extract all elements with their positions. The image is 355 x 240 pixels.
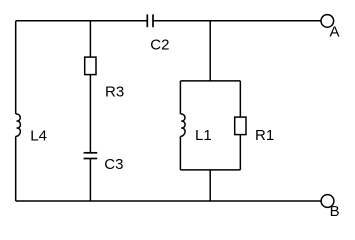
wire loop right lower [239, 135, 241, 170]
capacitor C3 [84, 153, 98, 159]
wire loop right upper [239, 81, 241, 117]
svg-text:R3: R3 [105, 83, 124, 100]
svg-text:R1: R1 [255, 127, 274, 144]
wire left lower (L4 down to bottom-left corner) [15, 136, 17, 201]
svg-text:A: A [330, 24, 340, 41]
wire middle feed top (top wire down to parallel loop) [209, 21, 211, 81]
wire C3 to bottom wire [89, 159, 91, 202]
wire loop top [180, 80, 240, 82]
inductor L1 [180, 114, 185, 137]
wire top-left (corner to C2 left plate) [16, 20, 148, 22]
svg-text:L4: L4 [30, 127, 47, 144]
resistor R3 [85, 57, 96, 75]
terminal A [321, 15, 334, 28]
terminal B [321, 195, 334, 208]
resistor R1 [235, 117, 246, 135]
wire loop left lower [179, 136, 181, 170]
inductor L4 [16, 114, 21, 137]
svg-text:C2: C2 [150, 36, 169, 53]
svg-text:B: B [330, 203, 340, 220]
wire R3 branch top (top wire down to R3) [89, 21, 91, 57]
wire top-right (C2 right plate to terminal A) [153, 20, 321, 22]
svg-text:C3: C3 [104, 156, 123, 173]
wire loop left upper [179, 81, 181, 114]
capacitor C2 [147, 14, 153, 27]
wire bottom (bottom-left corner to terminal B) [16, 200, 321, 202]
svg-text:L1: L1 [195, 127, 212, 144]
wire R3 to C3 [89, 75, 91, 153]
wire middle feed bottom (loop to bottom wire) [209, 170, 211, 201]
wire loop bottom [180, 169, 240, 171]
wire left upper (top-left corner down to L4) [15, 21, 17, 114]
